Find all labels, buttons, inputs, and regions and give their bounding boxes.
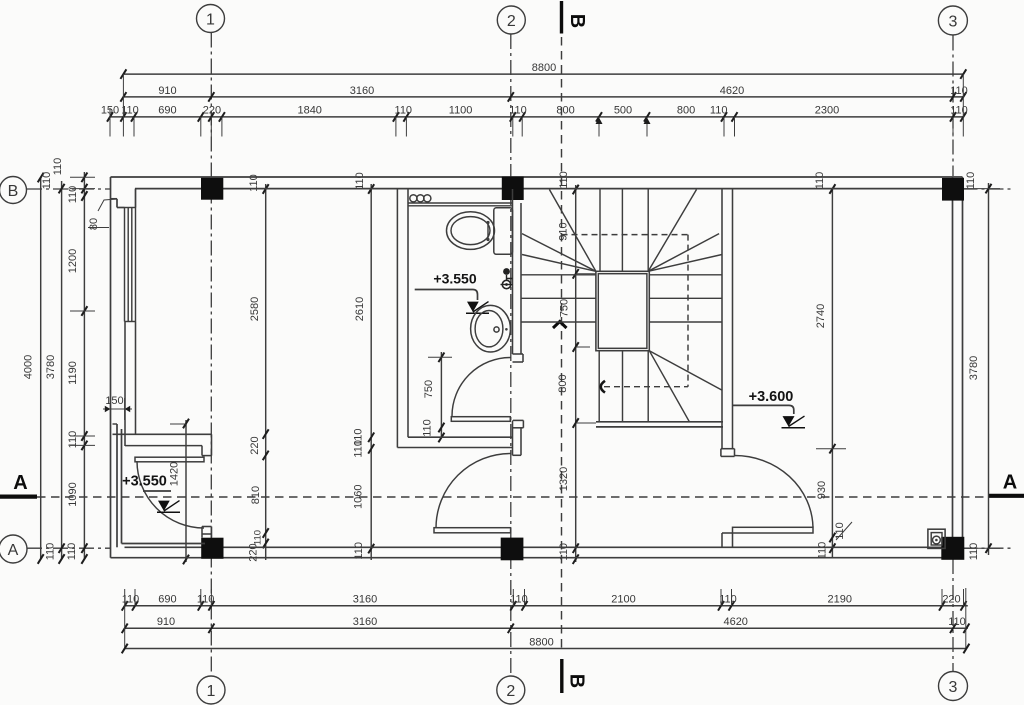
level marker triangle toilet xyxy=(466,302,489,314)
wall left below window xyxy=(125,322,136,447)
svg-text:110: 110 xyxy=(66,543,78,561)
faucet symbol xyxy=(501,268,513,289)
svg-text:1: 1 xyxy=(206,11,215,28)
dimension 80 with leader at left wall step xyxy=(88,199,117,230)
svg-text:800: 800 xyxy=(556,105,574,117)
outer wall bottom xyxy=(111,547,963,557)
column grid3-A xyxy=(941,537,964,560)
section line A-A horizontal with markers xyxy=(0,472,1024,498)
grid bubble B left xyxy=(0,177,27,204)
svg-text:110: 110 xyxy=(122,593,140,605)
svg-text:2190: 2190 xyxy=(828,593,852,605)
wall piece below right-room door xyxy=(722,533,733,547)
svg-text:4620: 4620 xyxy=(720,85,744,97)
svg-text:4620: 4620 xyxy=(723,616,747,628)
dimension row bottom 910 3160 4620 110 xyxy=(122,588,970,649)
level marker triangle right room xyxy=(782,416,806,428)
dimension row bottom overall 8800 xyxy=(122,637,970,654)
svg-text:1060: 1060 xyxy=(352,484,364,508)
stair lower-right winders xyxy=(649,351,722,422)
svg-text:2: 2 xyxy=(507,13,516,30)
svg-text:1320: 1320 xyxy=(558,467,570,491)
toilet bottom wall xyxy=(397,437,512,447)
dimension chain x=265.7 : 110 2580 220 810 110 220 xyxy=(248,174,269,561)
column grid1-B xyxy=(201,178,223,200)
entry room left wall lines xyxy=(113,424,206,547)
svg-text:800: 800 xyxy=(677,105,695,117)
entry room door swing arc xyxy=(137,461,204,528)
stair side treads left xyxy=(521,275,596,322)
dimension column left 4000 xyxy=(23,173,44,564)
grid line B (horizontal axis) xyxy=(27,188,1013,190)
svg-text:1: 1 xyxy=(207,683,216,700)
right room door swing arc xyxy=(735,455,814,527)
grid line A (horizontal axis) xyxy=(27,547,1013,549)
svg-text:110: 110 xyxy=(710,105,728,117)
stair upper-right winders xyxy=(648,190,722,272)
svg-text:810: 810 xyxy=(250,486,262,504)
svg-text:3160: 3160 xyxy=(350,85,374,97)
svg-text:500: 500 xyxy=(614,105,632,117)
wall between left room and entry room xyxy=(113,434,212,445)
svg-text:220: 220 xyxy=(942,593,960,605)
svg-text:2740: 2740 xyxy=(815,304,827,328)
svg-text:80: 80 xyxy=(88,218,100,230)
svg-text:110: 110 xyxy=(948,616,966,628)
svg-text:3780: 3780 xyxy=(45,355,57,379)
svg-text:110: 110 xyxy=(422,419,434,437)
svg-text:910: 910 xyxy=(558,222,570,240)
svg-text:+3.550: +3.550 xyxy=(122,474,167,490)
svg-text:2100: 2100 xyxy=(611,593,635,605)
svg-text:110: 110 xyxy=(354,172,366,190)
hall door swing arc xyxy=(436,453,511,528)
WC toilet bowl xyxy=(447,212,495,250)
grid bubble 1 bottom xyxy=(197,676,225,704)
dimension chain x=832.4 : 2740 930 110 xyxy=(814,172,852,560)
svg-text:4000: 4000 xyxy=(23,355,35,379)
level label +3.600 right room xyxy=(733,389,794,414)
svg-text:110: 110 xyxy=(965,172,977,190)
level label +3.550 entry room xyxy=(122,474,171,492)
svg-text:150: 150 xyxy=(105,395,123,407)
grid bubble 2 bottom xyxy=(497,676,525,704)
toilet right wall jamb below door xyxy=(513,420,524,455)
svg-text:220: 220 xyxy=(249,436,261,454)
entry room right wall lower jamb xyxy=(202,527,212,538)
svg-text:110: 110 xyxy=(197,593,215,605)
stair well box xyxy=(596,271,649,350)
svg-text:8800: 8800 xyxy=(532,62,556,74)
stair upper flight risers xyxy=(600,190,648,272)
stair dashed travel path xyxy=(562,235,689,393)
svg-text:A: A xyxy=(8,542,19,559)
svg-text:8800: 8800 xyxy=(529,637,553,649)
toilet left wall xyxy=(397,189,408,448)
grid line 2 (vertical axis) xyxy=(510,34,512,675)
outer wall right xyxy=(953,177,963,558)
hall door leaf on grid2 xyxy=(434,528,511,533)
dimension chain x=441.4 : 750 110 toilet door xyxy=(422,352,453,442)
svg-text:B: B xyxy=(8,183,19,200)
svg-text:930: 930 xyxy=(816,481,828,499)
level label +3.550 toilet xyxy=(415,271,478,301)
svg-text:3160: 3160 xyxy=(353,616,377,628)
dimension row bottom detail 110 690 .. 220 xyxy=(122,589,968,611)
svg-text:220: 220 xyxy=(248,543,260,561)
svg-text:3160: 3160 xyxy=(353,593,377,605)
svg-text:750: 750 xyxy=(559,299,571,317)
column grid2-B xyxy=(502,177,524,201)
dimension column right 3780 xyxy=(963,172,1000,561)
svg-text:110: 110 xyxy=(52,158,64,176)
svg-text:1090: 1090 xyxy=(67,482,79,506)
toilet right wall upper xyxy=(513,189,524,362)
svg-text:3: 3 xyxy=(949,679,958,696)
svg-text:110: 110 xyxy=(41,172,53,190)
svg-text:3: 3 xyxy=(948,13,957,30)
svg-text:690: 690 xyxy=(158,593,176,605)
svg-text:110: 110 xyxy=(67,186,79,204)
floor drain / pipe box near column grid3-A xyxy=(928,529,945,548)
grid bubble A left xyxy=(0,535,27,563)
wash basin xyxy=(471,305,511,352)
svg-text:1200: 1200 xyxy=(67,249,79,273)
grid bubble 3 top xyxy=(938,6,967,35)
dimension column left detail 110 80 1200 1190 110 1090 110 xyxy=(41,172,95,564)
grid bubble 1 top xyxy=(197,5,225,33)
svg-text:B: B xyxy=(566,674,588,688)
svg-text:3780: 3780 xyxy=(968,356,980,380)
svg-text:110: 110 xyxy=(968,543,980,561)
grid line 1 (vertical axis) xyxy=(210,33,212,676)
svg-text:110: 110 xyxy=(510,593,528,605)
entry room right wall upper piece with jamb xyxy=(202,434,212,455)
svg-text:2300: 2300 xyxy=(815,105,839,117)
svg-text:750: 750 xyxy=(423,380,435,398)
svg-text:110: 110 xyxy=(509,105,527,117)
outer wall left with step xyxy=(111,177,136,558)
svg-text:910: 910 xyxy=(157,616,175,628)
stair bottom edge xyxy=(596,422,723,427)
grid bubble 2 top xyxy=(497,6,525,34)
stair side treads right xyxy=(649,275,722,322)
svg-text:110: 110 xyxy=(814,172,826,190)
dimension row top overall 8800 xyxy=(120,62,966,79)
column grid3-B xyxy=(942,178,964,201)
svg-text:220: 220 xyxy=(203,105,221,117)
svg-text:110: 110 xyxy=(45,543,57,561)
svg-text:B: B xyxy=(566,14,588,28)
outer wall top xyxy=(111,177,963,189)
svg-text:1420: 1420 xyxy=(169,462,181,486)
svg-text:110: 110 xyxy=(558,171,570,189)
stair upper-left winders xyxy=(522,190,596,272)
svg-text:2610: 2610 xyxy=(354,297,366,321)
dimension chain x=575.7 : 110 910 750 800 1320 110 xyxy=(557,171,596,564)
svg-text:1840: 1840 xyxy=(297,105,321,117)
dimension chain x=371.2 : 110 2610 110 110 1060 110 xyxy=(352,172,374,560)
toilet door leaf xyxy=(451,417,510,422)
stair right wall xyxy=(721,190,735,457)
level marker triangle entry room xyxy=(157,501,180,513)
svg-text:110: 110 xyxy=(817,542,829,560)
svg-text:110: 110 xyxy=(950,105,968,117)
right room door leaf xyxy=(733,527,814,533)
entry room door leaf xyxy=(135,457,204,462)
svg-text:2: 2 xyxy=(506,683,515,700)
svg-text:800: 800 xyxy=(557,374,569,392)
dimension row top detail 150..110 xyxy=(101,74,968,136)
svg-text:+3.600: +3.600 xyxy=(749,389,794,405)
svg-text:110: 110 xyxy=(253,530,264,545)
section line B-B vertical with markers xyxy=(553,1,588,693)
dimension 150 at left wall step bottom xyxy=(103,395,132,420)
dimension row top 910 3160 4620 110 xyxy=(120,85,967,102)
svg-text:A: A xyxy=(1003,472,1017,494)
svg-text:690: 690 xyxy=(158,105,176,117)
svg-text:110: 110 xyxy=(395,105,413,117)
svg-text:A: A xyxy=(13,472,27,494)
column grid1-A xyxy=(201,538,223,559)
grid line 3 (vertical axis) xyxy=(952,36,954,672)
svg-text:1100: 1100 xyxy=(449,105,473,117)
stair lower flight risers xyxy=(599,351,648,422)
dimension column left 3780 xyxy=(45,158,65,564)
svg-text:+3.550: +3.550 xyxy=(433,271,476,287)
svg-text:1190: 1190 xyxy=(67,361,79,385)
dimension chain x=186 : 1420 entry room xyxy=(169,419,189,565)
svg-text:110: 110 xyxy=(353,440,365,458)
svg-text:110: 110 xyxy=(950,85,968,97)
toilet door swing arc xyxy=(452,358,511,417)
toilet vent shelf with circles xyxy=(408,195,513,206)
WC cistern tank xyxy=(494,208,513,255)
svg-text:910: 910 xyxy=(158,85,176,97)
svg-text:110: 110 xyxy=(719,593,737,605)
column grid2-A xyxy=(501,538,524,561)
svg-text:2580: 2580 xyxy=(249,297,261,321)
svg-text:110: 110 xyxy=(67,431,79,449)
window left wall xyxy=(125,208,136,322)
grid bubble 3 bottom xyxy=(939,672,968,701)
